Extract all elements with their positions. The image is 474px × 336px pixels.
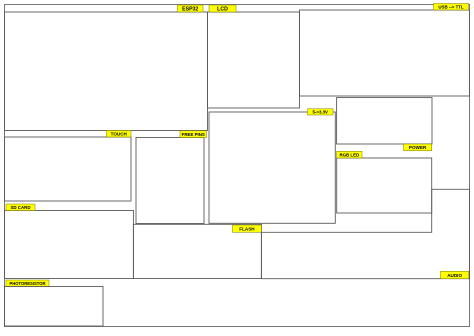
svg-text:AUDIO: AUDIO [447, 273, 462, 278]
section box LCD [208, 12, 300, 108]
section label RGB LED [337, 151, 362, 158]
svg-text:USB --> TTL: USB --> TTL [438, 5, 464, 10]
svg-text:SD CARD: SD CARD [10, 205, 30, 210]
section box PHOTORESISTOR [5, 287, 104, 327]
section label LCD [209, 5, 236, 12]
svg-text:LCD: LCD [217, 6, 228, 12]
section box 5V to 3.3V [209, 112, 335, 223]
section label USB --&gt; TTL [434, 4, 469, 11]
section box POWER [337, 98, 432, 144]
svg-text:RGB LED: RGB LED [339, 152, 359, 157]
section label TOUCH [107, 131, 132, 138]
section label AUDIO [441, 271, 469, 278]
section label ESP32 [178, 5, 204, 12]
svg-text:FREE PINS: FREE PINS [182, 132, 205, 137]
svg-text:FLASH: FLASH [239, 226, 255, 231]
svg-text:ESP32: ESP32 [182, 6, 198, 12]
section box SD CARD [5, 211, 134, 279]
section label SD CARD [6, 204, 35, 211]
section box USB to TTL [300, 10, 470, 96]
section label 5-&gt;3.3V [308, 109, 334, 115]
svg-text:5->3.3V: 5->3.3V [312, 110, 328, 115]
section box FLASH [133, 224, 261, 278]
section box AUDIO [261, 189, 469, 278]
section label POWER [404, 144, 432, 151]
section box ESP32 [5, 12, 208, 131]
svg-text:PHOTORESISTOR: PHOTORESISTOR [9, 281, 45, 286]
section label FLASH [233, 225, 262, 232]
section box FREE PINS [136, 138, 204, 224]
svg-text:POWER: POWER [409, 145, 427, 150]
section box RGB LED [337, 158, 432, 213]
section label FREE PINS [180, 131, 207, 138]
section box TOUCH [5, 137, 132, 201]
svg-text:TOUCH: TOUCH [111, 132, 128, 137]
section label PHOTORESISTOR [6, 280, 49, 287]
